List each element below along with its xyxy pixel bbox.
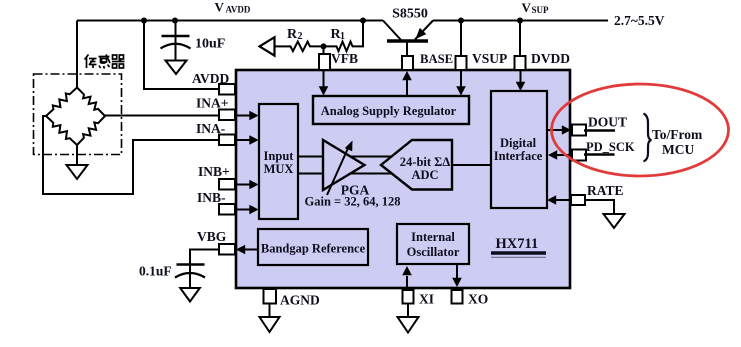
pin INB+ [219, 179, 235, 190]
svg-text:Input: Input [264, 149, 295, 163]
wire XI to ground [407, 304, 409, 318]
wire bridge bottom to ground [76, 145, 78, 165]
svg-text:Analog Supply Regulator: Analog Supply Regulator [321, 104, 457, 118]
ground below RATE [604, 214, 625, 228]
PGA gain arrow [327, 146, 349, 195]
svg-text:HX711: HX711 [496, 236, 539, 252]
wire VSUP rail [433, 20, 608, 22]
pin BASE [402, 56, 413, 70]
svg-text:RATE: RATE [587, 183, 624, 198]
pin INA- [219, 135, 235, 146]
block Internal Oscillator [397, 224, 469, 264]
wire DVDD pin to digital interface (arrow down) [520, 70, 522, 83]
wire PD_SCK to digital interface (arrow left) [557, 154, 572, 156]
ADC block 24-bit sigma-delta [381, 140, 452, 190]
junction dot [458, 18, 464, 24]
wire pin to Input MUX (arrow right) [235, 139, 250, 141]
wire pin to Input MUX (arrow right) [235, 209, 250, 211]
svg-text:XI: XI [419, 292, 434, 307]
ground below C1 [166, 61, 187, 75]
wire bridge right to INA+ pin [105, 115, 219, 117]
svg-text:V: V [215, 0, 225, 15]
ground below XI [398, 317, 419, 333]
wire pin to Input MUX (arrow right) [235, 115, 250, 117]
sensor label (CJK strokes) [85, 55, 125, 69]
red highlight ellipse [552, 84, 729, 176]
svg-text:VSUP: VSUP [472, 51, 507, 66]
wire AGND to ground [269, 304, 271, 318]
svg-text:To/From: To/From [652, 127, 703, 142]
block Bandgap Reference [258, 229, 368, 265]
svg-text:XO: XO [468, 292, 488, 307]
junction dot [141, 18, 147, 24]
resistor R1 [336, 42, 353, 52]
wire VFB node down [323, 46, 325, 54]
pin DVDD [515, 56, 526, 70]
capacitor C2 0.1uF [175, 265, 205, 289]
pin VSUP [456, 56, 467, 70]
svg-text:Internal: Internal [411, 230, 455, 244]
resistor bridge bottom-left [46, 116, 77, 145]
block Digital Interface [491, 91, 547, 208]
wire bandgap to VBG pin (arrow left) [244, 249, 258, 251]
svg-text:24-bit ΣΔ: 24-bit ΣΔ [400, 155, 451, 169]
svg-text:V: V [522, 0, 532, 15]
block Input MUX [259, 104, 298, 219]
svg-text:INB+: INB+ [198, 164, 230, 179]
wire regulator to BASE pin (arrow up) [406, 79, 408, 96]
pin DOUT [572, 125, 586, 136]
svg-text:0.1uF: 0.1uF [139, 264, 172, 279]
transistor Q1 S8550 (PNP) [383, 21, 433, 57]
block Analog Supply Regulator [313, 96, 469, 124]
junction dot [517, 18, 523, 24]
wire bridge left to INA- pin [43, 116, 219, 194]
pin VFB [319, 54, 330, 70]
resistor bridge top-left [46, 88, 77, 117]
wire R2 to R1 [311, 45, 336, 47]
ground below AGND [260, 317, 280, 332]
svg-text:10uF: 10uF [195, 37, 225, 52]
svg-text:VFB: VFB [331, 51, 358, 66]
wire arrow to R2 [275, 45, 291, 47]
off-page arrow to AVDD [260, 37, 275, 55]
svg-text:DVDD: DVDD [531, 51, 570, 66]
svg-text:Interface: Interface [494, 149, 543, 163]
svg-text:INA+: INA+ [196, 96, 228, 111]
wire RATE to digital interface (arrow left) [556, 199, 571, 201]
junction dot [172, 18, 178, 24]
svg-text:2.7~5.5V: 2.7~5.5V [614, 13, 665, 28]
wire VSUP rail to VSUP pin [460, 21, 462, 57]
svg-text:Gain = 32, 64, 128: Gain = 32, 64, 128 [305, 195, 401, 209]
wire VFB pin to regulator (arrow down) [323, 70, 325, 88]
pin AVDD [219, 84, 235, 95]
wire R1 to VAVDD rail [353, 21, 363, 47]
svg-text:AVDD: AVDD [192, 71, 230, 86]
pin XO [452, 290, 463, 304]
pin PD_SCK [572, 150, 586, 161]
ground below C2 [180, 288, 200, 302]
IC U1 HX711 chip body [236, 70, 570, 288]
svg-text:INB-: INB- [197, 190, 226, 205]
pin RATE [571, 195, 585, 205]
svg-text:VBG: VBG [197, 229, 227, 244]
wire digital interface to DOUT (arrow right) [547, 129, 563, 131]
resistor bridge bottom-right [77, 116, 105, 145]
brace to MCU [644, 114, 652, 162]
wire MUX to PGA (pair) [298, 156, 392, 158]
resistor bridge top-right [77, 88, 105, 117]
svg-text:2: 2 [298, 31, 303, 42]
svg-text:PD_SCK: PD_SCK [586, 140, 635, 154]
junction dot VFB node [321, 43, 327, 49]
pin AGND [264, 289, 277, 304]
svg-text:SUP: SUP [532, 5, 550, 15]
svg-text:MUX: MUX [264, 162, 294, 176]
svg-text:Bandgap Reference: Bandgap Reference [261, 242, 366, 256]
wire MUX to PGA lower [298, 173, 392, 175]
wire VSUP rail to DVDD pin [519, 21, 521, 57]
pin INB- [219, 204, 235, 215]
svg-text:R: R [287, 27, 298, 42]
svg-text:AGND: AGND [280, 293, 320, 308]
wire left drop to bridge [76, 21, 78, 90]
svg-text:AVDD: AVDD [226, 5, 251, 15]
svg-text:S8550: S8550 [392, 7, 428, 22]
capacitor C1 10uF [161, 21, 191, 62]
svg-text:DOUT: DOUT [588, 115, 627, 130]
ground below bridge [67, 165, 88, 179]
wire XI to oscillator (arrow up) [406, 276, 408, 288]
wire oscillator to XO (arrow down) [456, 264, 458, 279]
wire VAVDD to AVDD pin [144, 21, 219, 90]
wire VAVDD rail [77, 20, 383, 22]
svg-text:Digital: Digital [500, 136, 537, 150]
wire pin to Input MUX (arrow right) [235, 184, 250, 186]
svg-text:MCU: MCU [662, 142, 694, 157]
op-amp PGA triangle [323, 140, 365, 190]
svg-text:INA-: INA- [196, 121, 225, 136]
resistor R2 [290, 42, 312, 52]
svg-text:1: 1 [340, 31, 345, 42]
wire ADC to Digital Interface [452, 164, 491, 166]
wire RATE to ground [585, 200, 614, 214]
sensor dash-dot outline [34, 74, 122, 155]
svg-text:BASE: BASE [420, 52, 453, 66]
wire VBG pin to C2 [190, 250, 219, 265]
svg-text:ADC: ADC [411, 168, 438, 182]
pin INA+ [219, 110, 235, 121]
pin XI [403, 290, 414, 304]
wire VSUP pin to regulator (arrow down) [460, 70, 462, 88]
svg-text:Oscillator: Oscillator [407, 245, 460, 259]
junction dot [360, 18, 366, 24]
pin VBG [219, 244, 235, 255]
